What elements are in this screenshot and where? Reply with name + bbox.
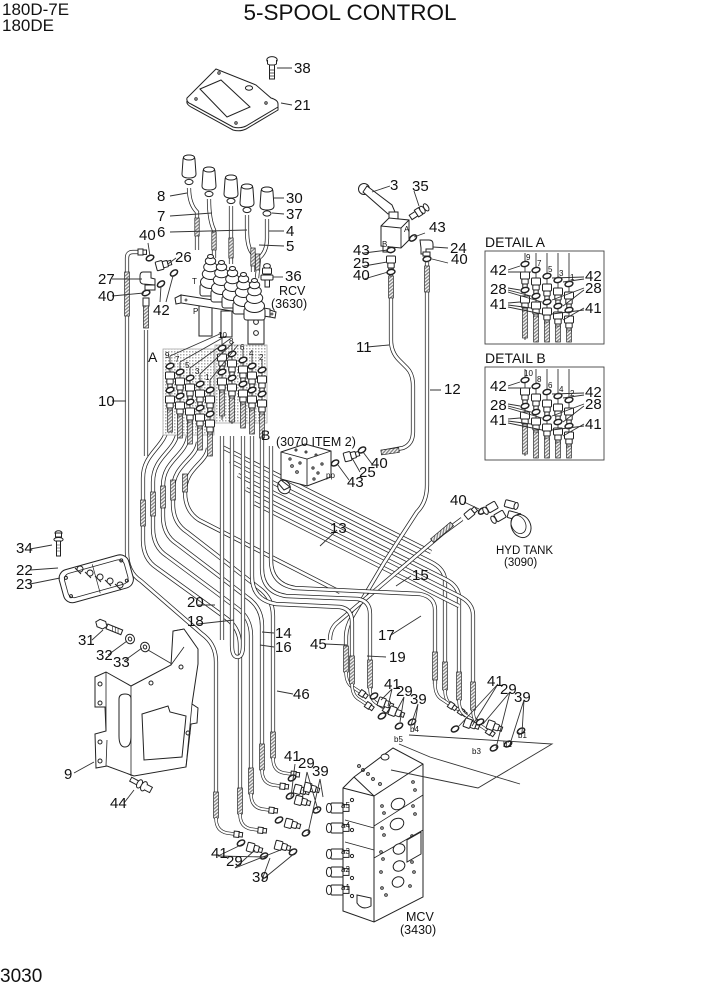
zone box B hatched bbox=[215, 345, 267, 423]
bracket 9 bbox=[95, 629, 198, 776]
lever knob 8 (cap) bbox=[182, 155, 199, 250]
svg-text:b5: b5 bbox=[394, 735, 403, 744]
svg-text:2: 2 bbox=[570, 389, 575, 398]
svg-text:(3430): (3430) bbox=[400, 923, 436, 937]
svg-text:10: 10 bbox=[218, 331, 227, 340]
zone box A hatched bbox=[163, 349, 214, 435]
zone B column 4 bbox=[247, 356, 256, 434]
b3 b2 b1 cluster fittings bbox=[450, 718, 525, 752]
svg-text:42: 42 bbox=[490, 262, 507, 279]
svg-text:A: A bbox=[148, 349, 158, 365]
plate 22/23 bbox=[57, 553, 135, 605]
small texts bbox=[165, 225, 575, 892]
svg-text:5-SPOOL CONTROL: 5-SPOOL CONTROL bbox=[244, 0, 457, 25]
RCV body blocks below flange bbox=[199, 306, 264, 344]
svg-text:41: 41 bbox=[585, 416, 602, 433]
svg-text:(3090): (3090) bbox=[504, 557, 537, 569]
svg-text:30: 30 bbox=[286, 190, 303, 207]
hyd tank fitting tip bbox=[464, 506, 478, 520]
svg-text:39: 39 bbox=[312, 763, 329, 780]
svg-text:40: 40 bbox=[451, 251, 468, 268]
RCV boot 4 bbox=[233, 273, 254, 315]
o-ring 43 left bbox=[387, 247, 396, 253]
svg-text:a2: a2 bbox=[341, 865, 350, 874]
hose10b crimp below 27 bbox=[143, 298, 149, 328]
wire hose 17 (bundle arc far right) bbox=[271, 446, 458, 711]
svg-text:10: 10 bbox=[524, 369, 533, 378]
svg-text:12: 12 bbox=[444, 381, 461, 398]
wire hose A5 staircase fading into crossing bbox=[185, 448, 340, 592]
svg-text:5: 5 bbox=[548, 265, 553, 274]
svg-text:B: B bbox=[382, 240, 387, 249]
zone A column 9 bbox=[165, 356, 174, 432]
bolt 38 bbox=[267, 57, 277, 79]
a-side lower fitting pair bbox=[236, 839, 297, 860]
RCV boot 2 bbox=[211, 261, 232, 303]
svg-text:18: 18 bbox=[187, 613, 204, 630]
wire central U loop hose bbox=[232, 436, 243, 657]
bolt 34 bbox=[54, 531, 63, 556]
a-side upper fitting trio bbox=[274, 774, 321, 837]
svg-text:45: 45 bbox=[310, 636, 327, 653]
svg-text:7: 7 bbox=[175, 355, 180, 364]
svg-text:15: 15 bbox=[412, 567, 429, 584]
svg-text:a4: a4 bbox=[341, 821, 350, 830]
svg-text:T: T bbox=[192, 277, 197, 286]
fitting 35 bbox=[408, 203, 430, 221]
svg-text:43: 43 bbox=[429, 219, 446, 236]
MCV port a3 bbox=[326, 849, 349, 859]
svg-text:42: 42 bbox=[490, 378, 507, 395]
wire hose 13-band line 2 (to b2) bbox=[238, 475, 482, 727]
svg-text:40: 40 bbox=[450, 492, 467, 509]
svg-text:B: B bbox=[261, 427, 270, 443]
svg-text:33: 33 bbox=[113, 654, 130, 671]
svg-text:32: 32 bbox=[96, 647, 113, 664]
svg-text:HYD TANK: HYD TANK bbox=[496, 545, 553, 557]
svg-text:b4: b4 bbox=[410, 725, 419, 734]
svg-text:3: 3 bbox=[195, 367, 200, 376]
svg-text:8: 8 bbox=[229, 337, 234, 346]
o-ring 40 top bbox=[145, 254, 154, 262]
staircase crimp sleeves bbox=[141, 474, 188, 526]
svg-text:34: 34 bbox=[16, 540, 33, 557]
bolt 31 bbox=[94, 618, 123, 636]
o-ring 40 under 24 bbox=[423, 256, 432, 262]
svg-text:39: 39 bbox=[410, 691, 427, 708]
svg-text:6: 6 bbox=[548, 381, 553, 390]
RCV boot 3 bbox=[222, 267, 243, 309]
MCV port a5 bbox=[326, 803, 349, 813]
group leader outline b clusters to mcv bbox=[391, 735, 552, 788]
fitting 36 bbox=[261, 264, 273, 287]
svg-text:5: 5 bbox=[185, 361, 190, 370]
svg-text:b1: b1 bbox=[518, 731, 527, 740]
handle 3 assembly bbox=[359, 184, 410, 253]
zone A fitting columns bbox=[0, 0, 1, 1]
MCV block bbox=[343, 748, 423, 922]
svg-text:2: 2 bbox=[259, 353, 264, 362]
svg-text:1: 1 bbox=[570, 273, 575, 282]
svg-text:13: 13 bbox=[330, 520, 347, 537]
fitting 25 bbox=[387, 256, 396, 272]
svg-text:8: 8 bbox=[157, 188, 165, 205]
o-ring 43 right bbox=[408, 234, 417, 243]
svg-text:42: 42 bbox=[153, 302, 170, 319]
svg-text:41: 41 bbox=[490, 296, 507, 313]
elbow 27 bbox=[140, 272, 155, 290]
wire hose to hyd tank bbox=[330, 519, 462, 640]
wire hose A4 staircase to MCV a5 (hose 46) bbox=[173, 442, 300, 778]
svg-text:A: A bbox=[404, 225, 410, 234]
svg-text:17: 17 bbox=[378, 627, 395, 644]
o-rings 42 bbox=[156, 280, 165, 289]
svg-text:19: 19 bbox=[389, 649, 406, 666]
svg-text:21: 21 bbox=[294, 97, 311, 114]
svg-text:40: 40 bbox=[353, 267, 370, 284]
washer 32 bbox=[124, 633, 136, 645]
svg-text:37: 37 bbox=[286, 206, 303, 223]
zone A column 3 bbox=[195, 374, 204, 450]
svg-text:7: 7 bbox=[537, 259, 542, 268]
wire hose 10 from elbow 27 down then to MCV a1 bbox=[125, 252, 243, 838]
lever knob 6 rod (center) bbox=[224, 175, 238, 264]
svg-text:27: 27 bbox=[98, 271, 115, 288]
svg-text:44: 44 bbox=[110, 795, 127, 812]
zone B column 10 bbox=[217, 338, 226, 420]
lever knob 30 cap and ring 37 bbox=[255, 187, 274, 278]
svg-text:1: 1 bbox=[205, 373, 210, 382]
svg-text:40: 40 bbox=[371, 455, 388, 472]
lever knob 7 (cap) bbox=[202, 167, 216, 258]
svg-text:8: 8 bbox=[537, 375, 542, 384]
svg-text:pp: pp bbox=[326, 471, 335, 480]
o-ring 40 left bbox=[387, 269, 396, 275]
svg-text:39: 39 bbox=[252, 869, 269, 886]
svg-text:28: 28 bbox=[585, 396, 602, 413]
svg-text:11: 11 bbox=[356, 339, 372, 356]
wire hose 11 from handle valve to 3070 block bbox=[381, 274, 413, 455]
wire hose 19 (bundle arc to hang) bbox=[262, 436, 393, 715]
o-ring 40 block bbox=[357, 446, 366, 454]
bolt 44 bbox=[128, 775, 153, 795]
RCV boot 1 bbox=[200, 255, 221, 297]
o-ring 40 below 27 bbox=[141, 289, 150, 296]
zone B column 2 bbox=[257, 360, 266, 438]
RCV boot 5 bbox=[244, 279, 265, 321]
svg-text:41: 41 bbox=[585, 300, 602, 317]
zone A column 5 bbox=[185, 368, 194, 444]
svg-text:29: 29 bbox=[226, 853, 243, 870]
svg-text:36: 36 bbox=[285, 268, 302, 285]
leader lines for callouts bbox=[30, 68, 524, 880]
b5 b4 cluster fittings bbox=[369, 692, 416, 730]
RCV valve flange plate bbox=[175, 295, 276, 318]
wire hose 45 (bundle arc to left hang) bbox=[252, 436, 375, 711]
svg-text:10: 10 bbox=[98, 393, 115, 410]
svg-text:16: 16 bbox=[275, 639, 292, 656]
svg-text:7: 7 bbox=[157, 208, 165, 225]
zone A column 1 bbox=[205, 380, 214, 456]
MCV port a4 bbox=[326, 823, 349, 833]
wire hose A2 staircase to MCV a3 bbox=[153, 430, 278, 814]
svg-text:9: 9 bbox=[64, 766, 72, 783]
elbow 24 bbox=[420, 240, 433, 256]
hyd tank tee fitting cluster bbox=[482, 500, 522, 525]
svg-text:38: 38 bbox=[294, 60, 311, 77]
svg-text:a5: a5 bbox=[341, 801, 350, 810]
svg-text:6: 6 bbox=[240, 343, 245, 352]
svg-text:35: 35 bbox=[412, 178, 429, 195]
zone B fitting columns bbox=[0, 0, 1, 1]
wire hose A1 staircase to MCV a2 bbox=[143, 424, 267, 834]
svg-text:23: 23 bbox=[16, 576, 33, 593]
svg-text:b2: b2 bbox=[503, 740, 512, 749]
svg-text:39: 39 bbox=[514, 689, 531, 706]
svg-text:9: 9 bbox=[526, 253, 531, 262]
svg-text:a1: a1 bbox=[341, 883, 350, 892]
hyd tank disk bbox=[507, 511, 535, 541]
wire hose 13-band line 3 (to b1) bbox=[246, 489, 496, 737]
svg-text:28: 28 bbox=[585, 280, 602, 297]
svg-text:P: P bbox=[193, 307, 198, 316]
svg-text:26: 26 bbox=[175, 249, 192, 266]
MCV port a2 bbox=[326, 867, 349, 877]
svg-text:MCV: MCV bbox=[406, 910, 434, 924]
svg-text:3: 3 bbox=[390, 177, 398, 194]
svg-text:3030: 3030 bbox=[0, 966, 42, 987]
svg-text:31: 31 bbox=[78, 632, 95, 649]
svg-text:46: 46 bbox=[293, 686, 310, 703]
zone A column 7 bbox=[175, 362, 184, 438]
svg-text:4: 4 bbox=[249, 349, 254, 358]
svg-text:DETAIL B: DETAIL B bbox=[485, 350, 546, 366]
wire hose band extra line 2 bbox=[254, 503, 459, 606]
zone B column 6 bbox=[238, 350, 247, 428]
fitting 26 nipple bbox=[155, 258, 172, 271]
svg-text:3: 3 bbox=[559, 269, 564, 278]
svg-text:(3070 ITEM 2): (3070 ITEM 2) bbox=[276, 435, 356, 449]
hyd tank o-ring 40 bbox=[477, 507, 486, 516]
zone B column 8 bbox=[227, 344, 236, 424]
fitting 25 block bbox=[343, 449, 360, 462]
wire hose 13-band line 1 (to b3) bbox=[230, 461, 468, 717]
svg-text:DETAIL A: DETAIL A bbox=[485, 234, 546, 250]
svg-text:5: 5 bbox=[286, 238, 294, 255]
svg-text:40: 40 bbox=[139, 227, 156, 244]
svg-text:RCV: RCV bbox=[279, 284, 306, 298]
cover plate 21 bbox=[187, 69, 278, 131]
washer 33 bbox=[139, 641, 151, 653]
svg-text:180DE: 180DE bbox=[2, 16, 54, 35]
detail A box bbox=[485, 251, 604, 344]
svg-text:b3: b3 bbox=[472, 747, 481, 756]
wire hose band extra line 1 bbox=[222, 447, 431, 552]
o-ring 43 block bbox=[330, 459, 339, 467]
svg-text:9: 9 bbox=[165, 351, 170, 360]
wire hose A3 staircase to MCV a4 bbox=[163, 436, 289, 790]
lever knob 4th bbox=[240, 184, 255, 272]
wire hose from fitting 27 stack (x146) down to staircase bbox=[144, 330, 148, 456]
leader fan RCV to zone A bbox=[170, 333, 238, 380]
svg-text:41: 41 bbox=[490, 412, 507, 429]
hose 10 end fitting bbox=[138, 249, 147, 255]
wire central bundle stub line bbox=[220, 436, 224, 640]
svg-text:a3: a3 bbox=[341, 847, 350, 856]
wire hose 12 from handle valve elbow down to b5 area bbox=[344, 262, 430, 699]
svg-text:6: 6 bbox=[157, 224, 165, 241]
svg-text:20: 20 bbox=[187, 594, 204, 611]
detail B box bbox=[485, 367, 604, 460]
svg-text:4: 4 bbox=[559, 385, 564, 394]
MCV port a1 bbox=[326, 885, 349, 895]
svg-text:40: 40 bbox=[98, 288, 115, 305]
svg-text:(3630): (3630) bbox=[271, 297, 307, 311]
3070 block bbox=[275, 444, 331, 496]
